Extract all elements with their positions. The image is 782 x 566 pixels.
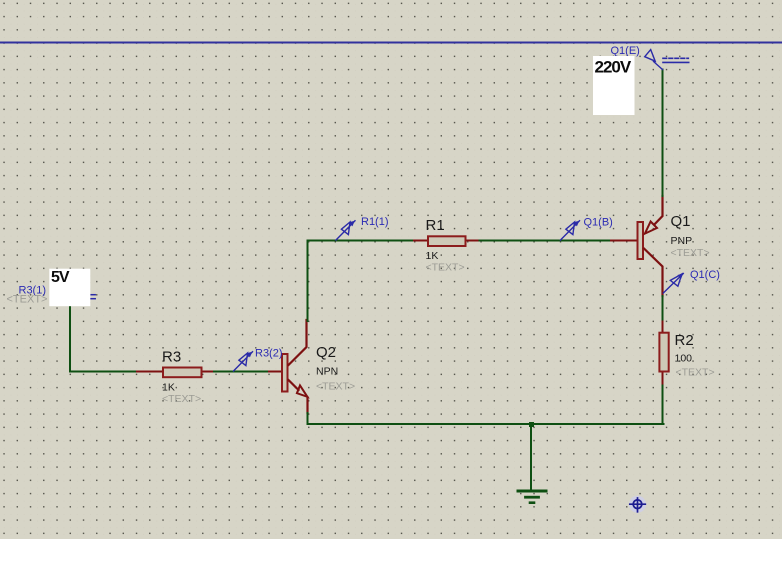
sheet border (blue line) xyxy=(0,42,782,44)
svg-text:PNP: PNP xyxy=(671,235,693,247)
svg-text:R2: R2 xyxy=(675,332,694,349)
transistor Q1 xyxy=(611,196,663,296)
svg-text:NPN: NPN xyxy=(316,366,338,378)
Q1 collector lead xyxy=(644,249,663,297)
wire: R3.2 to Q2 base xyxy=(214,371,269,373)
net pointer R1(1) xyxy=(336,216,389,240)
svg-text:Q1(B): Q1(B) xyxy=(584,217,613,229)
svg-text:R3: R3 xyxy=(162,348,181,365)
Q2 collector lead xyxy=(289,320,307,365)
transistor Q2 xyxy=(269,320,308,413)
net pointer R3(2) xyxy=(234,348,283,372)
svg-text:220V: 220V xyxy=(595,58,632,77)
svg-text:<TEXT>: <TEXT> xyxy=(162,393,201,405)
svg-text:<TEXT>: <TEXT> xyxy=(316,381,355,393)
wire: 220V supply down to Q1 emitter xyxy=(662,70,664,197)
5V terminal symbol remnant (dashes) xyxy=(91,295,96,299)
svg-text:100: 100 xyxy=(675,353,693,365)
wire: Q2 collector up and across to R1.1 xyxy=(308,241,415,322)
wire: Q2 emitter down to bus xyxy=(307,413,309,424)
svg-text:<TEXT>: <TEXT> xyxy=(671,247,710,259)
origin marker (crosshair) xyxy=(629,496,646,513)
svg-text:Q1(C): Q1(C) xyxy=(690,269,720,281)
svg-text:<TEXT>: <TEXT> xyxy=(7,293,48,305)
svg-text:1K: 1K xyxy=(162,382,175,394)
svg-text:R1: R1 xyxy=(426,217,445,234)
Q1 emitter arrowhead (PNP, points to base) xyxy=(645,222,657,234)
svg-text:R3(2): R3(2) xyxy=(255,348,283,360)
junction: bus / ground xyxy=(529,422,534,427)
svg-text:<TEXT>: <TEXT> xyxy=(676,367,715,379)
Q2 base bar xyxy=(282,354,288,392)
Q1 emitter lead xyxy=(655,196,663,224)
220V source label box xyxy=(593,56,635,115)
wire: 5V source to R3.1 xyxy=(70,306,137,372)
svg-text:Q2: Q2 xyxy=(316,344,336,361)
resistor R2 xyxy=(659,322,668,386)
wire: ground bus (bottom) xyxy=(308,423,664,425)
svg-text:Q1: Q1 xyxy=(671,213,691,230)
svg-text:<TEXT>: <TEXT> xyxy=(426,262,465,274)
svg-text:Q1(E): Q1(E) xyxy=(611,45,640,57)
net pointer Q1(B) xyxy=(561,217,613,241)
wire: R2.2 down to ground bus xyxy=(662,386,664,425)
power terminal symbol (dashed) at 220V xyxy=(663,58,689,62)
resistor R3 xyxy=(137,368,214,378)
resistor R1 xyxy=(414,236,480,246)
origin pointer Q1(E) xyxy=(611,45,663,70)
wire: R1.2 to Q1 base xyxy=(480,240,612,242)
net pointer Q1(C) xyxy=(663,269,720,293)
ground symbol xyxy=(518,426,546,503)
5V source label box xyxy=(49,269,90,307)
svg-text:R1(1): R1(1) xyxy=(361,216,389,228)
Q2 emitter lead xyxy=(289,380,299,390)
Q1 base bar xyxy=(638,222,644,259)
svg-text:5V: 5V xyxy=(51,269,70,286)
Q2 base lead xyxy=(269,371,281,373)
svg-text:1K: 1K xyxy=(426,250,439,262)
wire: Q1 collector to R2.1 xyxy=(662,296,664,322)
Q2 emitter arrowhead xyxy=(297,385,308,396)
Q1 base lead xyxy=(611,240,637,242)
